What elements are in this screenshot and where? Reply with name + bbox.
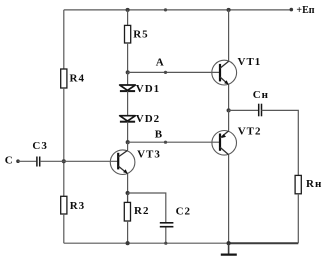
node dot B-wire mid: [164, 141, 167, 144]
wire left rail lower: [63, 214, 65, 243]
wire R5 bottom to node A: [127, 43, 129, 72]
wire input to C3: [18, 160, 36, 162]
wire left rail middle: [63, 88, 65, 196]
wire emitter node to R2: [127, 193, 129, 202]
svg-text:VT1: VT1: [238, 56, 262, 68]
transistor VT2: [212, 125, 262, 155]
diode VD2: [120, 113, 160, 125]
node bottom R2 dot: [126, 241, 130, 245]
node dot top rail mid: [164, 8, 167, 11]
node junction left-input: [62, 159, 66, 163]
wire VD1 to VD2: [127, 91, 129, 116]
wire top rail: [64, 9, 290, 11]
wire bottom rail left: [64, 242, 229, 244]
wire node B to VT2 base: [128, 141, 220, 143]
svg-text:A: A: [156, 57, 165, 69]
diode VD1: [120, 83, 160, 95]
svg-text:R4: R4: [70, 73, 85, 85]
resistor Rn: [295, 175, 322, 193]
wire VT2 collector to bottom rail: [228, 155, 230, 243]
node dot top rail R5: [126, 8, 130, 12]
capacitor Cn: [253, 89, 269, 116]
wire Cn to right rail: [262, 110, 299, 175]
svg-text:VD2: VD2: [136, 113, 160, 125]
node dot A-wire mid: [164, 71, 167, 74]
transistor VT1: [212, 56, 261, 85]
resistor R3: [61, 196, 85, 214]
svg-text:R5: R5: [133, 29, 148, 41]
wire VT3 emitter down: [127, 174, 129, 193]
node dot top rail VT1: [227, 8, 231, 12]
wire VT3 collector to node B: [127, 142, 129, 150]
node A dot: [126, 70, 130, 74]
ground: [221, 243, 237, 254]
svg-text:R2: R2: [134, 205, 149, 217]
resistor R4: [61, 69, 85, 88]
svg-text:R3: R3: [70, 200, 85, 212]
node bottom C2 dot: [164, 242, 167, 245]
transistor VT3: [110, 148, 161, 174]
svg-text:+Eп: +Eп: [296, 5, 314, 16]
svg-text:B: B: [155, 129, 163, 141]
node VT3 emitter dot: [126, 191, 130, 195]
wire R5 top: [127, 10, 129, 26]
svg-text:C3: C3: [32, 140, 47, 152]
wire node A to VT1 base: [128, 71, 220, 73]
svg-text:Rн: Rн: [306, 178, 322, 190]
terminal input: [16, 159, 20, 163]
wire VT1 collector: [228, 10, 230, 61]
wire VD2 to node B: [127, 122, 129, 143]
svg-text:Сн: Сн: [253, 89, 269, 101]
wire emitter node to C2: [128, 193, 166, 222]
wire VT1 emitter to output node: [228, 85, 230, 111]
resistor R5: [125, 25, 149, 43]
svg-text:VT2: VT2: [238, 125, 262, 137]
terminal +Ep: [290, 8, 294, 12]
wire left rail upper: [63, 10, 65, 69]
node B dot: [126, 140, 130, 144]
wire R2 to bottom rail: [127, 221, 129, 243]
svg-text:VD1: VD1: [136, 83, 160, 95]
node bottom-ground dot: [227, 241, 231, 245]
resistor R2: [124, 202, 149, 221]
capacitor C3: [32, 140, 47, 166]
wire right rail lower: [297, 194, 299, 243]
wire C3 to VT3 base: [40, 160, 119, 162]
wire C2 to bottom rail: [165, 228, 167, 244]
capacitor C2: [160, 206, 191, 227]
wire bottom rail right: [229, 242, 299, 244]
wire VT2 emitter: [228, 110, 230, 130]
wire output to Cn: [229, 109, 259, 111]
svg-text:C2: C2: [176, 206, 191, 218]
svg-text:C: C: [5, 155, 14, 167]
node output dot: [227, 108, 231, 112]
svg-text:VT3: VT3: [137, 148, 161, 160]
wire node A down to VD1: [127, 72, 129, 85]
